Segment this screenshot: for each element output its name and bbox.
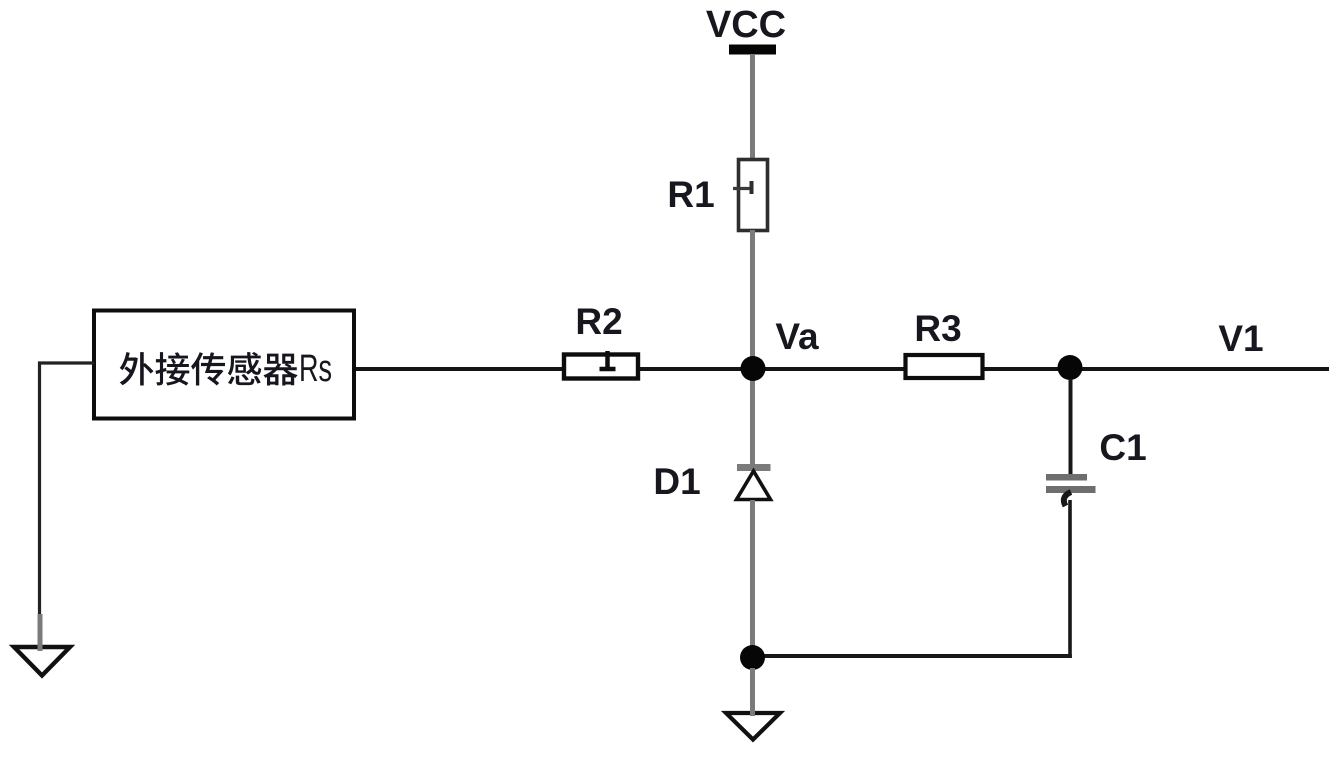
svg-text:Va: Va bbox=[775, 316, 819, 357]
wire grey stub above left ground bbox=[38, 614, 43, 651]
svg-text:C1: C1 bbox=[1099, 427, 1146, 468]
resistor R2 wiper tick bbox=[605, 351, 610, 370]
ground symbol bottom bbox=[726, 713, 780, 740]
resistor R3 body bbox=[906, 355, 983, 378]
wire bottom horizontal (node to C1 branch) bbox=[760, 654, 1072, 658]
diode D1 triangle bbox=[737, 471, 771, 500]
node Va junction dot bbox=[741, 356, 766, 381]
svg-text:D1: D1 bbox=[653, 461, 700, 502]
sensor box 外接传感器Rs bbox=[94, 311, 354, 419]
svg-text:R3: R3 bbox=[914, 308, 961, 349]
wire sensor box left lead bbox=[40, 363, 95, 615]
svg-text:Rs: Rs bbox=[299, 348, 332, 390]
diode D1: grey cathode bar bbox=[737, 464, 771, 471]
wire main horizontal rail bbox=[355, 367, 1329, 371]
wire R1 bottom to node Va (grey) bbox=[750, 230, 755, 370]
resistor R2 body bbox=[564, 355, 638, 379]
power rail VCC bar bbox=[729, 45, 776, 55]
wire node Va down to D1 (grey) bbox=[750, 368, 755, 466]
wire VCC bar to R1 top (grey) bbox=[750, 54, 755, 160]
wire grey stub above bottom ground bbox=[750, 668, 755, 716]
wire C1 to bottom rail bbox=[1068, 500, 1072, 658]
resistor R1 wiper tick bbox=[733, 187, 752, 190]
capacitor C1 bottom lead hook bbox=[1064, 492, 1071, 506]
wire D1 to bottom node (grey) bbox=[750, 500, 755, 658]
bottom node junction dot bbox=[740, 645, 765, 670]
svg-text:V1: V1 bbox=[1218, 318, 1263, 359]
capacitor C1: top lead wire bbox=[1069, 379, 1073, 474]
svg-text:R1: R1 bbox=[667, 174, 714, 215]
capacitor C1 top plate bbox=[1046, 474, 1087, 481]
ground symbol left bbox=[14, 647, 70, 676]
svg-text:R2: R2 bbox=[575, 301, 622, 342]
capacitor C1 bottom plate bbox=[1046, 486, 1096, 493]
svg-text:VCC: VCC bbox=[706, 4, 786, 46]
resistor R1 body bbox=[739, 160, 768, 231]
node C1 branch junction dot bbox=[1058, 355, 1083, 380]
